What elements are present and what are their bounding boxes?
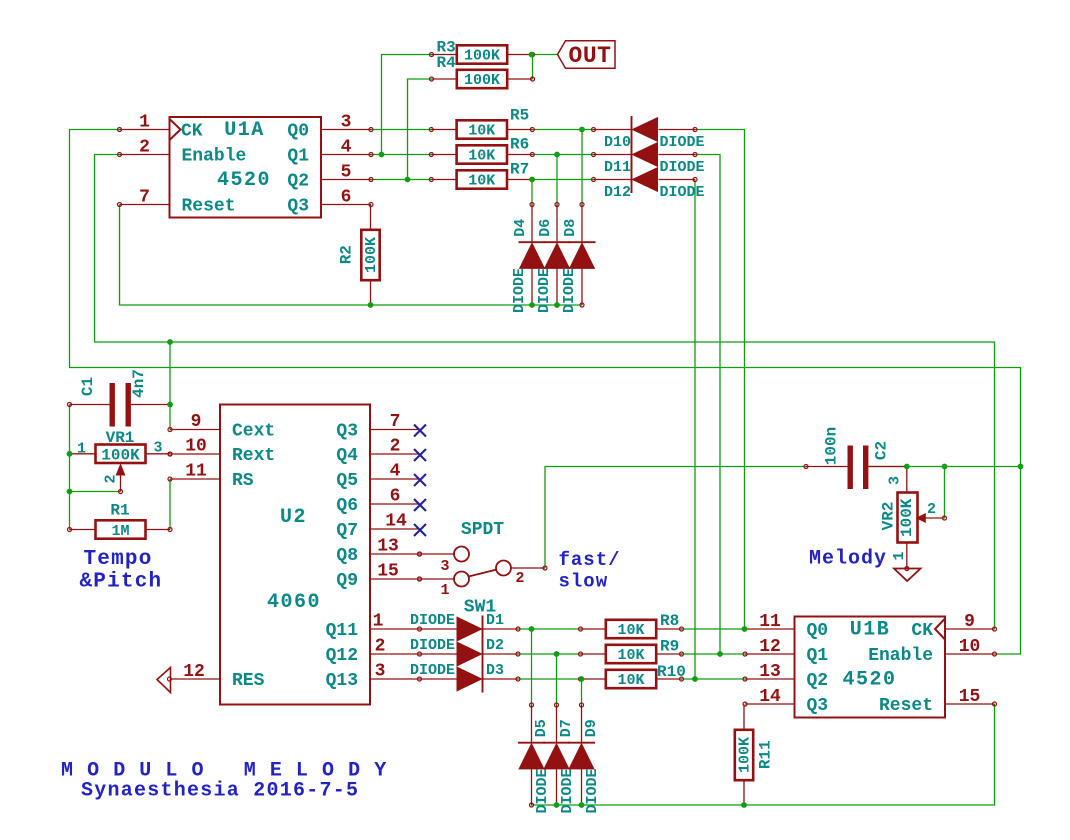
resistor R9 10K (579, 638, 684, 665)
svg-text:fast/: fast/ (559, 549, 621, 571)
wire C1 right to U2 Cext (169, 342, 171, 430)
svg-text:1: 1 (77, 441, 86, 458)
resistor R7 10K (429, 161, 534, 190)
wire R5 to D10 (532, 129, 594, 131)
svg-text:15: 15 (959, 687, 981, 707)
svg-text:13: 13 (759, 662, 781, 682)
no-connect X at U2 pin row 454 (414, 449, 426, 461)
wire VR2 wiper branch (944, 467, 946, 519)
svg-text:2: 2 (515, 570, 524, 587)
svg-text:1M: 1M (111, 523, 129, 540)
diode D3 (410, 662, 520, 692)
resistor R4 100K (430, 54, 535, 89)
svg-text:Q1: Q1 (287, 147, 309, 167)
global label OUT (558, 41, 616, 69)
svg-text:R10: R10 (657, 663, 686, 681)
ground (894, 569, 921, 582)
svg-text:Enable: Enable (182, 147, 247, 167)
svg-text:Q1: Q1 (807, 646, 829, 666)
svg-text:7: 7 (139, 188, 150, 208)
svg-text:4520: 4520 (217, 169, 271, 192)
svg-text:Q13: Q13 (326, 671, 358, 691)
svg-text:DIODE: DIODE (660, 134, 705, 151)
op-amp U2 4060 oscillator-divider (157, 405, 422, 705)
svg-text:4060: 4060 (267, 591, 321, 614)
svg-text:D2: D2 (486, 637, 504, 654)
svg-text:R11: R11 (757, 740, 775, 769)
svg-text:6: 6 (341, 188, 352, 208)
svg-text:Q3: Q3 (807, 696, 829, 716)
svg-text:3: 3 (341, 113, 352, 133)
wire D8 column drop (581, 130, 583, 205)
wire R4 right up to R3 right (532, 55, 534, 80)
svg-text:5: 5 (341, 163, 352, 183)
wire D3 to R10 (518, 678, 581, 680)
svg-text:3: 3 (153, 440, 162, 457)
svg-text:Q5: Q5 (336, 471, 358, 491)
wire VR1 wiper row (70, 491, 121, 493)
diode D6 (536, 203, 570, 314)
capacitor C2 100n (804, 427, 907, 489)
svg-text:1: 1 (373, 612, 384, 632)
svg-text:Melody: Melody (809, 548, 887, 571)
label Melody (809, 548, 887, 571)
wire Q2 row to R7 (371, 179, 432, 181)
wire D5 column drop (531, 629, 533, 705)
svg-text:Q0: Q0 (807, 621, 829, 641)
svg-text:D6: D6 (537, 219, 554, 237)
wire D7 column drop (556, 654, 558, 705)
wire D4 column drop (531, 180, 533, 205)
diode D4 (511, 203, 545, 314)
svg-text:10: 10 (959, 637, 981, 657)
no-connect X at U2 pin row 479 (414, 474, 426, 486)
svg-text:R5: R5 (510, 107, 529, 125)
diode D7 (544, 703, 576, 814)
svg-text:Q4: Q4 (336, 446, 358, 466)
resistor R2 100K vertical (338, 205, 381, 306)
svg-text:7: 7 (390, 412, 401, 432)
wire R9 right to U1B pin12 (681, 653, 745, 655)
diode D12 (592, 167, 705, 201)
svg-text:1: 1 (891, 551, 908, 560)
resistor R11 100K vertical (735, 705, 775, 806)
wire R8 right to U1B pin11 (681, 628, 745, 630)
svg-text:&Pitch: &Pitch (80, 571, 163, 594)
svg-text:Q7: Q7 (336, 521, 358, 541)
svg-text:1: 1 (440, 582, 449, 599)
wire D10 to U1B pin11 rail (695, 130, 745, 630)
svg-text:DIODE: DIODE (410, 637, 455, 654)
svg-text:D5: D5 (533, 719, 550, 737)
svg-text:DIODE: DIODE (410, 612, 455, 629)
svg-text:R8: R8 (660, 612, 679, 630)
svg-text:U1A: U1A (224, 119, 265, 142)
svg-text:VR1: VR1 (106, 429, 135, 447)
svg-text:D7: D7 (558, 719, 575, 737)
svg-text:U1B: U1B (850, 619, 891, 642)
svg-text:Q6: Q6 (336, 496, 358, 516)
diode D9 (569, 703, 601, 814)
node D5 bottom (530, 803, 534, 807)
svg-text:15: 15 (377, 562, 399, 582)
wire R4 left to Q2 row (408, 79, 432, 180)
wire D1 to R8 (518, 628, 581, 630)
svg-text:D8: D8 (562, 219, 579, 237)
resistor R5 10K (429, 107, 534, 140)
resistor R8 10K (579, 612, 684, 639)
svg-text:2: 2 (139, 138, 150, 158)
op-amp U1B 4520 counter (743, 612, 997, 718)
capacitor C1 4n7 (68, 369, 171, 426)
svg-text:10K: 10K (617, 647, 644, 664)
wire R7 to D12 (532, 179, 594, 181)
svg-text:100n: 100n (823, 427, 841, 465)
wire D11 to U1B pin12 rail (695, 155, 720, 655)
label Tempo&Pitch (80, 548, 163, 594)
svg-text:R2: R2 (338, 245, 356, 264)
resistor R1 1M (68, 502, 173, 540)
wire R6 to D11 (532, 154, 594, 156)
svg-text:Enable: Enable (868, 646, 933, 666)
svg-text:3: 3 (887, 476, 904, 485)
svg-text:D12: D12 (604, 184, 631, 201)
wire R10 right to U1B pin13 (681, 678, 745, 680)
svg-text:12: 12 (759, 637, 781, 657)
svg-text:4n7: 4n7 (130, 369, 148, 398)
svg-text:R1: R1 (110, 502, 129, 520)
resistor R3 100K (430, 39, 535, 65)
svg-text:Q2: Q2 (807, 671, 829, 691)
node D8 bottom (580, 303, 584, 307)
svg-text:1: 1 (139, 113, 150, 133)
subtitle Synaesthesia 2016-7-5 (81, 780, 359, 803)
svg-text:100K: 100K (363, 237, 380, 273)
svg-text:Cext: Cext (232, 422, 275, 442)
wire Q0 row to R5 (371, 129, 432, 131)
wire D2 to R9 (518, 653, 581, 655)
svg-text:10: 10 (185, 437, 207, 457)
svg-text:D9: D9 (583, 719, 600, 737)
no-connect X at U2 pin row 429.5 (414, 425, 426, 437)
svg-text:SPDT: SPDT (461, 520, 504, 540)
diode D2 (410, 637, 520, 667)
svg-text:100K: 100K (898, 498, 916, 537)
wire bottom rail to U1B pin15 (532, 704, 995, 805)
svg-text:D10: D10 (604, 134, 631, 151)
svg-text:DIODE: DIODE (559, 768, 576, 813)
svg-text:4: 4 (390, 462, 401, 482)
svg-text:RES: RES (232, 671, 265, 691)
svg-text:DIODE: DIODE (536, 268, 553, 313)
label fast/slow (559, 549, 621, 593)
wire R3 right to OUT (533, 54, 558, 56)
title MODULO MELODY (61, 760, 387, 783)
no-connect X at U2 pin row 504 (414, 499, 426, 511)
potentiometer VR1 100K (70, 429, 173, 494)
svg-text:2: 2 (103, 474, 120, 483)
svg-text:100K: 100K (464, 72, 500, 89)
svg-text:SW1: SW1 (464, 598, 497, 618)
wire R3 left to Q1 row (382, 55, 432, 155)
diode D5 (519, 703, 551, 814)
no-connect X at U2 pin row 529 (414, 524, 426, 536)
potentiometer VR2 100K (880, 467, 947, 571)
svg-text:3: 3 (375, 662, 386, 682)
svg-text:4520: 4520 (842, 669, 896, 692)
wire Q1 row to R6 (371, 154, 432, 156)
svg-text:4: 4 (341, 138, 352, 158)
svg-text:9: 9 (964, 612, 975, 632)
svg-text:Q2: Q2 (287, 172, 309, 192)
svg-text:Q11: Q11 (326, 621, 359, 641)
svg-text:Tempo: Tempo (84, 548, 153, 571)
svg-text:DIODE: DIODE (561, 268, 578, 313)
svg-text:Q3: Q3 (287, 197, 309, 217)
wire net EN-A (U1A pin2 to U1B pin9 CK) (95, 155, 995, 630)
svg-text:Q12: Q12 (326, 646, 358, 666)
svg-text:Q9: Q9 (336, 571, 358, 591)
svg-text:14: 14 (385, 512, 407, 532)
svg-text:Q0: Q0 (287, 122, 309, 142)
wire C1 left vertical rail (69, 405, 71, 530)
svg-text:U2: U2 (280, 506, 307, 529)
svg-text:13: 13 (377, 537, 399, 557)
svg-text:Reset: Reset (879, 696, 933, 716)
svg-text:C1: C1 (79, 377, 97, 396)
svg-text:D4: D4 (512, 219, 529, 237)
svg-text:OUT: OUT (569, 43, 612, 69)
svg-text:DIODE: DIODE (534, 768, 551, 813)
svg-text:2: 2 (375, 637, 386, 657)
svg-text:Rext: Rext (232, 446, 275, 466)
svg-text:3: 3 (440, 558, 449, 575)
diode D1 (410, 612, 520, 642)
svg-text:RS: RS (232, 471, 254, 491)
wire U1A pin7 reset rail (120, 205, 583, 306)
svg-text:100K: 100K (464, 48, 500, 65)
svg-text:D11: D11 (604, 159, 631, 176)
wire D12 to U1B pin13 rail (694, 180, 696, 680)
svg-text:12: 12 (183, 662, 205, 682)
svg-text:10K: 10K (468, 148, 495, 165)
svg-text:R6: R6 (510, 136, 529, 154)
resistor R10 10K (579, 663, 686, 689)
svg-text:100K: 100K (737, 737, 754, 773)
svg-text:Reset: Reset (182, 197, 236, 217)
svg-text:Synaesthesia 2016-7-5: Synaesthesia 2016-7-5 (81, 780, 359, 803)
resistor R6 10K (429, 136, 534, 165)
switch SW1 SPDT (418, 520, 548, 618)
wire D9 column drop (581, 679, 583, 705)
svg-text:Q8: Q8 (336, 546, 358, 566)
diode D10 (592, 117, 705, 151)
svg-text:R7: R7 (510, 161, 529, 179)
svg-text:slow: slow (559, 571, 609, 593)
wire net CK-A (U1A pin1 to U1B pin10 via left and bottom rails) (70, 130, 1021, 655)
diode D8 (561, 203, 595, 314)
svg-text:9: 9 (191, 412, 202, 432)
svg-text:VR2: VR2 (880, 502, 898, 531)
svg-text:11: 11 (185, 462, 207, 482)
svg-text:2: 2 (927, 501, 936, 518)
svg-text:14: 14 (759, 687, 781, 707)
svg-text:10K: 10K (468, 123, 495, 140)
svg-text:10K: 10K (468, 173, 495, 190)
svg-text:DIODE: DIODE (511, 268, 528, 313)
op-amp U1A 4520 counter (118, 113, 374, 218)
svg-text:100K: 100K (101, 447, 140, 465)
svg-text:DIODE: DIODE (660, 184, 705, 201)
svg-text:CK: CK (911, 621, 933, 641)
wire SW1 common to C2 (545, 467, 806, 569)
svg-text:R9: R9 (660, 638, 679, 656)
svg-text:10K: 10K (617, 672, 644, 689)
svg-text:R4: R4 (437, 54, 457, 72)
svg-text:2: 2 (390, 437, 401, 457)
svg-text:11: 11 (759, 612, 781, 632)
svg-text:6: 6 (390, 487, 401, 507)
svg-text:Q3: Q3 (336, 422, 358, 442)
svg-text:DIODE: DIODE (660, 159, 705, 176)
svg-text:DIODE: DIODE (410, 662, 455, 679)
svg-text:C2: C2 (873, 441, 891, 460)
wire R1 right to U2 RS (169, 479, 171, 530)
wire C2 right rail (867, 466, 1021, 468)
svg-text:DIODE: DIODE (584, 768, 601, 813)
svg-text:D3: D3 (486, 662, 504, 679)
wire D6 column drop (556, 155, 558, 205)
svg-text:10K: 10K (617, 622, 644, 639)
svg-text:CK: CK (181, 122, 203, 142)
diode D11 (592, 142, 705, 176)
